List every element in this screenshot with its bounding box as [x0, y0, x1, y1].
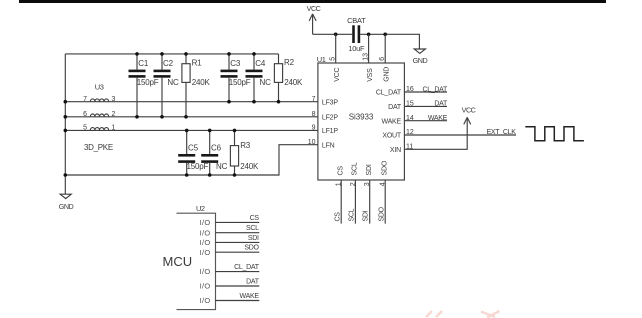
- svg-text:240K: 240K: [240, 162, 259, 171]
- svg-text:SCL: SCL: [349, 208, 356, 221]
- svg-text:8: 8: [312, 111, 316, 118]
- svg-text:GND: GND: [59, 202, 74, 211]
- svg-text:6: 6: [379, 57, 386, 61]
- svg-text:R3: R3: [240, 141, 251, 150]
- svg-text:150pF: 150pF: [229, 78, 251, 87]
- U1 pin 10 LFN: [308, 139, 335, 149]
- svg-text:150pF: 150pF: [187, 162, 209, 171]
- svg-text:1: 1: [112, 125, 116, 132]
- wire: top rail of RC bank: [65, 53, 278, 55]
- U1 pin 5 VCC (top): [330, 34, 341, 82]
- wire: VCC rail through CBAT to GND: [313, 34, 420, 49]
- watermark fragment (bottom): [426, 311, 500, 318]
- svg-text:VCC: VCC: [307, 4, 321, 13]
- svg-text:CL_DAT: CL_DAT: [234, 264, 260, 271]
- U1 pin 16 CL_DAT wire and net label: [376, 86, 448, 96]
- resistor R3 240K: [230, 130, 259, 175]
- svg-text:R2: R2: [284, 58, 295, 67]
- U1 pin 7 LF3P: [312, 96, 339, 106]
- capacitor C4 NC: [246, 54, 272, 102]
- wire: LF3P line (pin 7): [65, 101, 318, 103]
- svg-text:6: 6: [83, 111, 87, 118]
- coil winding pins 5-1: [83, 125, 115, 132]
- svg-text:MCU: MCU: [163, 254, 193, 269]
- capacitor C5 150pF: [178, 130, 208, 175]
- svg-text:LF1P: LF1P: [322, 128, 338, 135]
- svg-text:3: 3: [112, 96, 116, 103]
- power symbol VCC (top): [307, 4, 321, 34]
- junction dots RC bank: [64, 52, 281, 177]
- U1 pin 11 XIN wire to VCC: [390, 117, 467, 153]
- svg-text:12: 12: [406, 129, 414, 136]
- inductor U3 3D_PKE antenna labels: [84, 82, 113, 152]
- coil winding pins 6-2: [83, 111, 115, 118]
- svg-text:I/O: I/O: [200, 267, 211, 276]
- svg-text:5: 5: [330, 57, 337, 61]
- svg-text:C6: C6: [211, 143, 222, 152]
- svg-text:CBAT: CBAT: [347, 16, 366, 25]
- svg-text:15: 15: [406, 101, 414, 108]
- svg-text:C1: C1: [138, 59, 149, 68]
- svg-text:150pF: 150pF: [137, 78, 159, 87]
- svg-text:SCL: SCL: [352, 162, 359, 175]
- MCU pin I/O SDO: [200, 245, 260, 257]
- U1 pin 3 SDI (bottom) wire and net label: [363, 164, 373, 223]
- svg-text:R1: R1: [192, 59, 203, 68]
- U1 pin 2 SCL (bottom) wire and net label: [349, 162, 359, 223]
- svg-text:NC: NC: [216, 162, 228, 171]
- svg-text:DAT: DAT: [246, 278, 260, 285]
- svg-text:NC: NC: [167, 78, 179, 87]
- coil winding pins 7-3: [83, 96, 115, 103]
- svg-text:SDO: SDO: [382, 160, 389, 175]
- MCU pin I/O CL_DAT: [200, 264, 260, 276]
- ground symbol GND (top right): [413, 49, 428, 65]
- svg-text:SDI: SDI: [248, 235, 259, 242]
- svg-text:NC: NC: [260, 78, 272, 87]
- svg-text:GND: GND: [413, 56, 428, 65]
- U1 pin 4 SDO (bottom) wire and net label: [378, 160, 388, 223]
- svg-text:WAKE: WAKE: [428, 115, 448, 122]
- svg-text:240K: 240K: [284, 78, 303, 87]
- clock waveform symbol: [525, 127, 584, 141]
- power symbol VCC (right): [462, 105, 476, 124]
- svg-text:C3: C3: [230, 59, 241, 68]
- U1 pin 13 VSS (top): [363, 34, 374, 82]
- svg-text:4: 4: [380, 182, 387, 186]
- svg-text:CS: CS: [334, 212, 341, 222]
- svg-text:CL_DAT: CL_DAT: [422, 86, 448, 93]
- svg-text:I/O: I/O: [200, 218, 211, 227]
- capacitor C3 150pF: [221, 54, 251, 102]
- svg-text:XOUT: XOUT: [382, 133, 402, 140]
- svg-text:EXT_CLK: EXT_CLK: [487, 129, 517, 136]
- IC U1 Si3933 body: [317, 55, 405, 180]
- svg-text:GND: GND: [384, 67, 391, 82]
- svg-text:5: 5: [83, 125, 87, 132]
- svg-text:7: 7: [312, 96, 316, 103]
- MCU pin I/O SCL: [200, 225, 260, 237]
- svg-text:10: 10: [308, 139, 316, 146]
- U1 pin 14 WAKE wire and net label: [381, 115, 447, 125]
- svg-text:U1: U1: [317, 55, 326, 64]
- svg-text:7: 7: [83, 96, 87, 103]
- svg-text:2: 2: [350, 182, 357, 186]
- svg-text:I/O: I/O: [200, 228, 211, 237]
- svg-text:I/O: I/O: [200, 248, 211, 257]
- top black banner bar: [19, 0, 606, 3]
- svg-text:VSS: VSS: [367, 68, 374, 82]
- svg-text:CS: CS: [250, 215, 260, 222]
- wire: left vertical common bus: [64, 54, 66, 175]
- capacitor C1 150pF: [129, 54, 159, 117]
- svg-text:C4: C4: [255, 59, 266, 68]
- MCU U2 body: [163, 204, 216, 309]
- svg-text:WAKE: WAKE: [240, 293, 260, 300]
- wire: LF2P line (pin 8): [65, 116, 318, 118]
- svg-text:I/O: I/O: [200, 296, 211, 305]
- wire: bottom rail to LFN pin 10: [65, 145, 318, 175]
- svg-text:WAKE: WAKE: [381, 118, 401, 125]
- svg-text:DAT: DAT: [434, 101, 448, 108]
- svg-text:9: 9: [312, 125, 316, 132]
- resistor R2 240K: [274, 54, 303, 102]
- U1 pin 1 CS (bottom) wire and net label: [334, 166, 344, 224]
- svg-text:SDO: SDO: [244, 245, 259, 252]
- svg-text:SCL: SCL: [246, 225, 259, 232]
- svg-text:I/O: I/O: [200, 282, 211, 291]
- svg-text:XIN: XIN: [390, 147, 401, 154]
- MCU pin I/O DAT: [200, 278, 260, 290]
- svg-text:14: 14: [406, 115, 414, 122]
- svg-text:CS: CS: [338, 166, 345, 176]
- svg-text:LF2P: LF2P: [322, 115, 338, 122]
- svg-text:Si3933: Si3933: [349, 112, 374, 121]
- U1 pin 9 LF1P: [312, 125, 339, 135]
- ground symbol GND (bottom left): [59, 175, 74, 211]
- U1 pin 6 GND (top): [379, 34, 390, 82]
- capacitor C2 NC: [154, 54, 179, 117]
- svg-text:U2: U2: [196, 204, 205, 213]
- svg-text:U3: U3: [95, 82, 104, 91]
- svg-text:I/O: I/O: [200, 238, 211, 247]
- wire: LF1P line (pin 9): [65, 129, 318, 131]
- MCU pin I/O CS: [200, 215, 260, 227]
- svg-text:SDI: SDI: [366, 164, 373, 175]
- svg-text:3: 3: [364, 182, 371, 186]
- svg-text:1: 1: [336, 182, 343, 186]
- capacitor CBAT 10uF: [347, 16, 366, 53]
- MCU pin I/O SDI: [200, 235, 260, 247]
- svg-text:2: 2: [112, 111, 116, 118]
- resistor R1 240K: [182, 54, 211, 117]
- U1 pin 12 XOUT wire and EXT_CLK net label: [382, 129, 516, 140]
- svg-text:LFN: LFN: [322, 142, 335, 149]
- svg-text:240K: 240K: [192, 78, 211, 87]
- svg-text:C2: C2: [163, 59, 174, 68]
- svg-text:SDO: SDO: [378, 206, 385, 221]
- svg-text:DAT: DAT: [388, 104, 402, 111]
- svg-text:16: 16: [406, 86, 414, 93]
- capacitor C6 NC: [201, 130, 227, 175]
- svg-text:10uF: 10uF: [348, 44, 365, 53]
- svg-text:VCC: VCC: [334, 67, 341, 81]
- svg-text:C5: C5: [188, 143, 199, 152]
- svg-text:SDI: SDI: [363, 210, 370, 221]
- svg-text:11: 11: [406, 144, 413, 151]
- U1 pin 15 DAT wire and net label: [388, 101, 448, 111]
- U1 pin 8 LF2P: [312, 111, 339, 121]
- junction dots on VCC/GND rail: [334, 33, 387, 37]
- svg-text:CL_DAT: CL_DAT: [376, 90, 402, 97]
- svg-text:3D_PKE: 3D_PKE: [84, 143, 113, 152]
- MCU pin I/O WAKE: [200, 293, 260, 305]
- svg-text:VCC: VCC: [462, 105, 476, 114]
- svg-text:13: 13: [363, 53, 370, 61]
- svg-text:LF3P: LF3P: [322, 99, 338, 106]
